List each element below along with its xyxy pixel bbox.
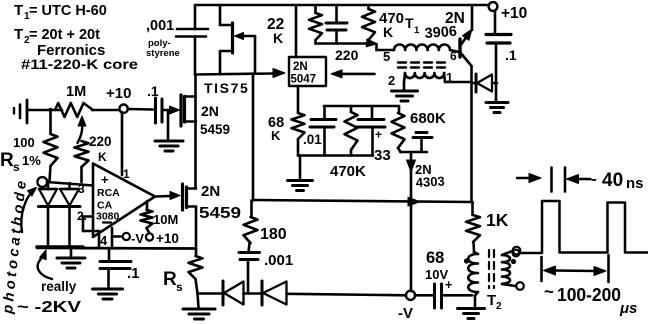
wire cascode <box>194 74 197 189</box>
svg-text:100-200: 100-200 <box>557 285 621 305</box>
ground input left <box>14 100 27 123</box>
ground Q5 gate <box>155 110 183 151</box>
svg-text:~: ~ <box>587 170 597 189</box>
wire -2KV bar <box>37 247 196 249</box>
svg-text:33: 33 <box>374 147 391 164</box>
resistor R6 470K <box>330 106 366 180</box>
wire 2N5047 bottom <box>297 86 300 113</box>
transistor Q5 2N5459 upper <box>170 95 231 137</box>
wire T1 pin6 to base <box>450 49 459 63</box>
wire pin2 feedback <box>83 217 99 249</box>
wire drive net <box>253 197 472 206</box>
svg-text:photocathode: photocathode <box>0 177 30 316</box>
diode D1 protection <box>39 183 58 248</box>
wire 68K bottom <box>297 139 300 156</box>
terminal -V bias <box>123 231 145 246</box>
svg-text:+10: +10 <box>156 231 179 246</box>
label photocathode <box>0 177 30 316</box>
ground T2 <box>458 296 485 319</box>
transformer T1 core <box>398 63 445 68</box>
svg-text:470K: 470K <box>330 163 366 180</box>
svg-text:+: + <box>375 128 382 142</box>
wire 180 top <box>250 201 253 218</box>
wire pin4 <box>111 228 114 249</box>
diode D2 protection <box>59 183 80 248</box>
transformer T2 primary <box>468 252 478 296</box>
svg-text:1K: 1K <box>486 210 509 230</box>
svg-text:1: 1 <box>414 25 420 36</box>
transistor Q6 2N5459 lower <box>170 183 241 222</box>
resistor R11 Rs <box>163 249 203 295</box>
svg-text:4303: 4303 <box>415 174 445 190</box>
transistor Q4 2N4303 <box>407 152 446 291</box>
wire T1 pin1 <box>444 73 470 82</box>
terminal +10 bias <box>146 231 179 246</box>
wire into 2N5047 emitter arrow <box>273 69 285 78</box>
svg-text:K: K <box>271 128 281 143</box>
node anode input <box>37 177 47 187</box>
wire TIS75 source net <box>195 74 273 75</box>
waveform pulse train <box>521 201 648 253</box>
transformer T2 primary dot <box>464 258 469 263</box>
capacitor C7 68uF 10V <box>425 249 472 308</box>
svg-text:~ -2KV: ~ -2KV <box>17 299 81 316</box>
svg-text:.1: .1 <box>127 265 140 282</box>
capacitor C6 .1 bypass <box>486 11 517 101</box>
ground C9 <box>93 289 123 299</box>
ground diodes <box>57 249 85 268</box>
svg-text:-V: -V <box>398 305 413 322</box>
wire op-amp pin1 +10 <box>121 112 124 175</box>
wire T1 pin2 ground lead <box>404 73 405 89</box>
capacitor C10 .001 <box>239 243 293 294</box>
op-amp output wire <box>155 195 170 198</box>
svg-text:s: s <box>176 280 183 294</box>
svg-text:K: K <box>98 150 107 164</box>
node +10 supply terminal <box>489 2 528 22</box>
label R photocathode load <box>0 150 20 174</box>
resistor R7 680K <box>392 106 447 152</box>
vertical from gate wire <box>252 74 255 201</box>
svg-text:#11-220-K core: #11-220-K core <box>21 56 138 72</box>
svg-text:+10: +10 <box>501 5 527 22</box>
wire input to pin3 <box>47 182 93 186</box>
transformer T2 secondary dot <box>511 259 516 264</box>
svg-text:.01: .01 <box>303 132 322 147</box>
svg-text:-V: -V <box>131 231 144 246</box>
svg-text:RCA: RCA <box>97 187 120 199</box>
wire Q6 source <box>195 207 198 249</box>
svg-text:K: K <box>383 24 393 40</box>
terminal T2 out bottom <box>516 282 524 290</box>
diode D4 <box>223 281 262 305</box>
note core type <box>21 56 138 72</box>
transformer T2 core <box>489 250 494 288</box>
transistor Q3 2N3906 <box>424 5 472 66</box>
svg-text:K: K <box>273 30 283 46</box>
capacitor C9 .1 bias <box>100 249 140 289</box>
arrow photocathode <box>21 188 36 233</box>
svg-text:+: + <box>101 172 109 187</box>
transformer T2 label <box>487 292 502 312</box>
resistor R9 1K <box>466 202 509 252</box>
svg-text:R: R <box>0 150 14 171</box>
svg-text:68: 68 <box>426 249 444 267</box>
wire 2N5047 right gate <box>331 70 375 78</box>
node -V <box>398 291 415 322</box>
transistor Q1 TIS75 <box>204 5 255 96</box>
annotation 40ns arrows <box>517 168 590 192</box>
note Ferronics <box>37 42 105 59</box>
note T1 transformer type <box>14 2 107 22</box>
wire 220 net <box>316 39 378 63</box>
svg-text:2N: 2N <box>201 183 220 200</box>
capacitor C5 gate <box>413 133 432 153</box>
svg-text:2: 2 <box>388 73 395 88</box>
ground C6 <box>486 103 508 113</box>
svg-text:R: R <box>163 269 177 290</box>
svg-text:T: T <box>405 15 414 31</box>
svg-text:.001: .001 <box>264 252 293 269</box>
svg-text:,001: ,001 <box>146 18 174 34</box>
svg-text:+: + <box>445 278 452 292</box>
wire pot to node <box>92 109 120 112</box>
wire mid bottom rail <box>298 154 373 157</box>
resistor R12 180 <box>244 217 287 243</box>
wire 680K bottom node <box>401 151 428 154</box>
svg-text:100: 100 <box>13 135 35 150</box>
diode D3 <box>472 74 497 92</box>
svg-text:680K: 680K <box>410 110 446 127</box>
svg-text:220: 220 <box>89 134 112 149</box>
wire +10 top rail <box>195 4 489 7</box>
wire -V to C7 <box>415 294 433 297</box>
label 40ns <box>587 170 644 192</box>
potentiometer R1 wiper <box>78 116 87 143</box>
capacitor C2 <box>326 5 347 44</box>
svg-text:6: 6 <box>450 49 457 63</box>
capacitor C4 33uF <box>357 106 391 164</box>
diode D5 <box>262 281 287 305</box>
ground T1 secondary <box>392 91 418 101</box>
wire D5 to -V node <box>287 294 407 296</box>
arrow really <box>38 250 52 279</box>
svg-text:~: ~ <box>544 282 554 301</box>
ground mid block <box>288 156 313 191</box>
op-amp U1 CA3080 <box>77 164 155 249</box>
resistor R10 10M <box>141 201 179 233</box>
transformer T1 primary <box>383 44 450 64</box>
transformer T1 secondary <box>388 71 453 88</box>
svg-text:1%: 1% <box>22 153 41 168</box>
capacitor C8 .1 gate <box>147 83 162 123</box>
capacitor C1 .001 polystyrene <box>176 5 208 75</box>
wire C8 to gate <box>162 109 171 112</box>
wire node to C8 <box>128 108 153 111</box>
resistor R4 68K <box>268 113 305 143</box>
svg-text:5: 5 <box>383 49 390 64</box>
resistor R3 22K <box>267 5 322 46</box>
svg-text:T: T <box>14 2 23 19</box>
svg-text:1: 1 <box>123 167 130 181</box>
annotation 100-200us arrows <box>542 255 609 282</box>
svg-text:180: 180 <box>260 226 287 243</box>
label -2KV <box>17 299 81 316</box>
capacitor C1 .001 polystyrene label <box>146 18 180 59</box>
wire Rs to D4 <box>198 292 224 295</box>
wire pin4 to -V terminal <box>112 235 123 238</box>
wire input <box>27 109 62 112</box>
ground Rs <box>183 294 215 320</box>
svg-text:s: s <box>13 160 20 174</box>
wire bias rail <box>83 247 196 250</box>
resistor R2 100 1% <box>13 108 58 181</box>
svg-text:TIS75: TIS75 <box>204 80 249 96</box>
note T2 winding <box>14 26 100 46</box>
svg-text:μs: μs <box>619 300 637 317</box>
svg-text:= UTC H-60: = UTC H-60 <box>29 3 107 19</box>
resistor R5 470K top <box>362 5 404 44</box>
svg-text:5459: 5459 <box>200 122 230 137</box>
resistor R8 220K <box>75 134 112 182</box>
transistor U2 2N5047 <box>289 5 326 86</box>
svg-text:3080: 3080 <box>96 211 120 223</box>
svg-text:220: 220 <box>335 47 359 63</box>
terminal waveform <box>513 250 520 257</box>
svg-text:= 20t + 20t: = 20t + 20t <box>29 27 100 43</box>
svg-text:2: 2 <box>496 301 502 312</box>
svg-text:+10: +10 <box>106 85 131 102</box>
transformer T1 label <box>405 15 420 36</box>
potentiometer R1 1M <box>55 84 93 117</box>
svg-text:40: 40 <box>602 170 623 191</box>
svg-text:.1: .1 <box>147 83 159 99</box>
wire to T1 pin5 <box>377 44 395 50</box>
wire mid node A <box>324 105 399 108</box>
svg-text:2N: 2N <box>201 103 219 119</box>
label 100-200us <box>544 282 637 317</box>
transformer T2 secondary <box>502 252 516 287</box>
capacitor C3 .01 <box>303 106 336 156</box>
svg-text:5047: 5047 <box>291 74 317 86</box>
svg-text:styrene: styrene <box>146 48 180 59</box>
svg-text:4: 4 <box>100 233 108 248</box>
svg-text:1M: 1M <box>66 84 86 100</box>
wire Q3 collector <box>470 66 473 202</box>
label really <box>41 279 77 294</box>
node +10 left <box>106 85 131 113</box>
terminal T2 out top <box>513 247 521 255</box>
svg-text:ns: ns <box>626 175 644 192</box>
svg-text:.1: .1 <box>505 47 517 63</box>
svg-text:2N: 2N <box>293 61 308 73</box>
svg-text:3906: 3906 <box>424 24 457 42</box>
svg-text:T: T <box>487 292 496 309</box>
svg-text:10M: 10M <box>153 212 178 227</box>
svg-text:5459: 5459 <box>199 205 241 222</box>
svg-text:really: really <box>41 279 77 294</box>
svg-text:T: T <box>14 26 23 43</box>
